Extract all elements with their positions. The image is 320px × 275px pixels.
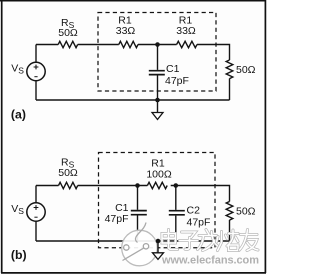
capacitor C1 47pF (a) (149, 45, 189, 101)
wire RS to node1 (b) (78, 185, 148, 187)
ground (b) (153, 241, 164, 259)
wire R1a to node (a) (138, 44, 177, 46)
resistor 50 ohm load (b) (226, 202, 255, 221)
svg-text:100Ω: 100Ω (146, 169, 172, 181)
capacitor C2 47pF (b) (169, 186, 211, 242)
svg-text:VS: VS (11, 63, 24, 76)
svg-text:C1: C1 (166, 63, 180, 75)
svg-text:(b): (b) (11, 248, 27, 262)
svg-text:50Ω: 50Ω (58, 167, 78, 179)
resistor RS (a) (58, 17, 78, 48)
voltage source VS (b) (11, 186, 45, 242)
svg-text:47pF: 47pF (187, 217, 211, 229)
wire load to bottom rail (a) (229, 79, 231, 101)
capacitor C1 47pF (b) (105, 186, 147, 242)
node junction dot bottom ground (b) (156, 239, 161, 244)
wire load to bottom rail (b) (229, 220, 231, 241)
svg-text:C2: C2 (187, 205, 201, 217)
node junction dot 2 top (b) (174, 183, 179, 188)
resistor RS (b) (58, 157, 78, 189)
wire bottom rail (b) (36, 240, 230, 242)
dashed box network (b) (99, 153, 216, 248)
svg-text:VS: VS (11, 203, 24, 216)
watermark logo circle elecfans (122, 223, 158, 266)
resistor R1 100 ohm (b) (146, 158, 172, 189)
svg-text:www.elecfans.com: www.elecfans.com (161, 255, 259, 267)
wire top rail circuit a (36, 44, 58, 46)
svg-text:33Ω: 33Ω (176, 25, 196, 37)
resistor R1 first 33 ohm (a) (116, 15, 138, 48)
svg-text:50Ω: 50Ω (58, 27, 78, 39)
resistor 50 ohm load (a) (226, 60, 255, 79)
node junction dot top (a) (155, 42, 160, 47)
voltage source VS (a) (11, 45, 45, 101)
node junction dot 1 top (b) (135, 183, 140, 188)
svg-text:47pF: 47pF (165, 75, 189, 87)
dashed box network (a) (98, 13, 216, 92)
ground (a) (152, 100, 163, 120)
wire bottom rail (a) (36, 99, 230, 101)
svg-text:47pF: 47pF (105, 213, 129, 225)
wire RS to R1 first (a) (78, 44, 119, 46)
svg-text:50Ω: 50Ω (236, 206, 256, 218)
wire R1b to right corner (a) (197, 45, 230, 61)
node junction dot bottom (a) (155, 98, 160, 103)
svg-text:33Ω: 33Ω (116, 25, 136, 37)
svg-text:50Ω: 50Ω (236, 64, 256, 76)
wire top rail circuit b (36, 185, 59, 187)
svg-text:(a): (a) (11, 107, 26, 121)
wire R1 to right corner (b) (171, 186, 230, 202)
resistor R1 second 33 ohm (a) (176, 15, 197, 48)
